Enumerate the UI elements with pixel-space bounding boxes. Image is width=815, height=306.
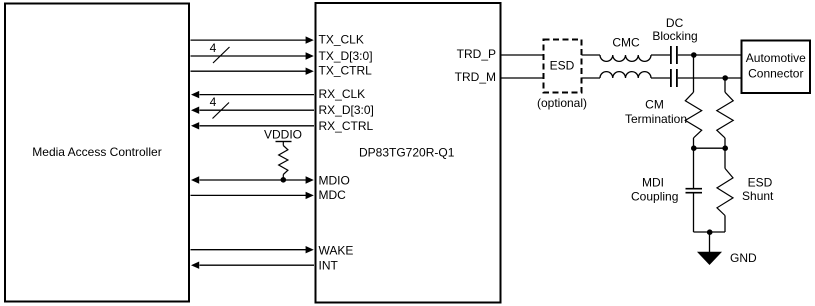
wire TRD_M from PHY to ESD (501, 77, 543, 79)
svg-text:CM: CM (645, 97, 664, 111)
svg-text:RX_CLK: RX_CLK (319, 87, 366, 101)
wire cap to connector (bottom) (678, 77, 741, 79)
CM termination resistor R1 (685, 92, 701, 138)
svg-text:ESD: ESD (550, 59, 575, 73)
wire TRD_P from PHY to ESD (501, 54, 543, 56)
wire TRD_P junction down to CM termination resistor (693, 55, 695, 92)
wire C3 to ground rail (693, 193, 695, 232)
svg-text:RX_CTRL: RX_CTRL (319, 119, 374, 133)
wire TRD_M junction down to CM termination resistor (724, 78, 726, 92)
svg-text:ESD: ESD (748, 175, 773, 189)
node: ground junction (707, 229, 713, 235)
node: center-tap left (691, 145, 697, 151)
wire RX_D[3:0] bus with arrow into MAC (191, 103, 374, 117)
DC blocking capacitor C2 (TRD_M) (671, 69, 677, 87)
svg-text:GND: GND (730, 251, 757, 265)
node: TRD_M junction (722, 75, 728, 81)
svg-text:WAKE: WAKE (319, 244, 354, 258)
node: MDIO pull-up junction (281, 177, 287, 183)
common-mode choke CMC (600, 36, 651, 78)
svg-text:MDC: MDC (319, 188, 347, 202)
wire center-tap down to ESD shunt resistor (724, 148, 726, 168)
MDI coupling capacitor C3 (686, 189, 703, 193)
wire RX_CLK with arrow into MAC (191, 87, 365, 101)
node: TRD_P junction (691, 52, 697, 58)
svg-text:TX_CTRL: TX_CTRL (319, 64, 373, 78)
wire WAKE with arrow into PHY (191, 244, 354, 258)
DP83TG720R-Q1 PHY block U1 (316, 3, 501, 303)
svg-text:TRD_P: TRD_P (457, 47, 496, 61)
CM termination resistor R2 (717, 92, 733, 138)
bus-width slash on TX_D[3:0] (213, 47, 230, 63)
wire ESD to CMC (TRD_P) (582, 54, 601, 56)
svg-text:DP83TG720R-Q1: DP83TG720R-Q1 (359, 146, 455, 160)
DC Blocking label (652, 16, 697, 43)
svg-text:MDIO: MDIO (319, 173, 350, 187)
pull-up resistor on MDIO (279, 146, 288, 181)
svg-text:TRD_M: TRD_M (455, 70, 496, 84)
wire TX_D[3:0] bus with arrow into PHY (191, 49, 373, 63)
wire cap to connector (top) (678, 54, 741, 56)
wire ground stem (709, 232, 711, 253)
wire CMC to DC blocking cap (top) (651, 54, 670, 56)
svg-text:Termination: Termination (625, 112, 687, 126)
wire R3 to ground rail (724, 216, 726, 233)
svg-text:DC: DC (666, 16, 684, 30)
ESD shunt resistor R3 (717, 168, 733, 215)
svg-text:INT: INT (319, 258, 339, 272)
wire R1 to center-tap node (693, 138, 695, 148)
wire ground rail (694, 231, 726, 233)
svg-text:Shunt: Shunt (742, 189, 774, 203)
wire center-tap down to MDI coupling cap (693, 148, 695, 188)
power rail VDDIO (264, 128, 302, 146)
ground symbol (697, 252, 722, 265)
bus-width slash on RX_D[3:0] (213, 103, 230, 119)
wire RX_CTRL with arrow into MAC (191, 119, 374, 133)
wire TX_CTRL with arrow into PHY (191, 64, 373, 78)
wire INT with arrow into MAC (191, 258, 339, 272)
node: center-tap right (722, 145, 728, 151)
svg-text:Media Access Controller: Media Access Controller (32, 145, 161, 159)
wire R2 to center-tap node (724, 138, 726, 148)
svg-text:Coupling: Coupling (631, 189, 678, 203)
DC blocking capacitor C1 (TRD_P) (671, 46, 677, 64)
svg-text:MDI: MDI (642, 175, 664, 189)
wire MDC with arrow into PHY (191, 188, 347, 202)
svg-text:Automotive: Automotive (746, 51, 806, 65)
svg-text:4: 4 (210, 95, 217, 109)
wire center-tap rail (694, 147, 726, 149)
svg-text:Blocking: Blocking (652, 29, 697, 43)
wire CMC to DC blocking cap (bottom) (651, 77, 670, 79)
Automotive Connector block J1 (742, 41, 811, 94)
svg-text:VDDIO: VDDIO (264, 128, 302, 142)
Media Access Controller block U-MAC (5, 4, 189, 302)
svg-text:TX_CLK: TX_CLK (319, 33, 364, 47)
svg-text:Connector: Connector (748, 66, 803, 80)
ESD protection block (optional) (537, 40, 587, 111)
svg-text:TX_D[3:0]: TX_D[3:0] (319, 49, 373, 63)
wire MDIO bidirectional (191, 173, 350, 187)
svg-text:CMC: CMC (612, 36, 640, 50)
MDI Coupling label (631, 175, 678, 203)
wire ESD to CMC (TRD_M) (582, 77, 601, 79)
wire TX_CLK with arrow into PHY (191, 33, 364, 47)
svg-text:4: 4 (210, 41, 217, 55)
CM Termination label (625, 97, 687, 125)
svg-text:RX_D[3:0]: RX_D[3:0] (319, 103, 374, 117)
svg-text:(optional): (optional) (537, 96, 587, 110)
ESD Shunt label (742, 175, 774, 202)
